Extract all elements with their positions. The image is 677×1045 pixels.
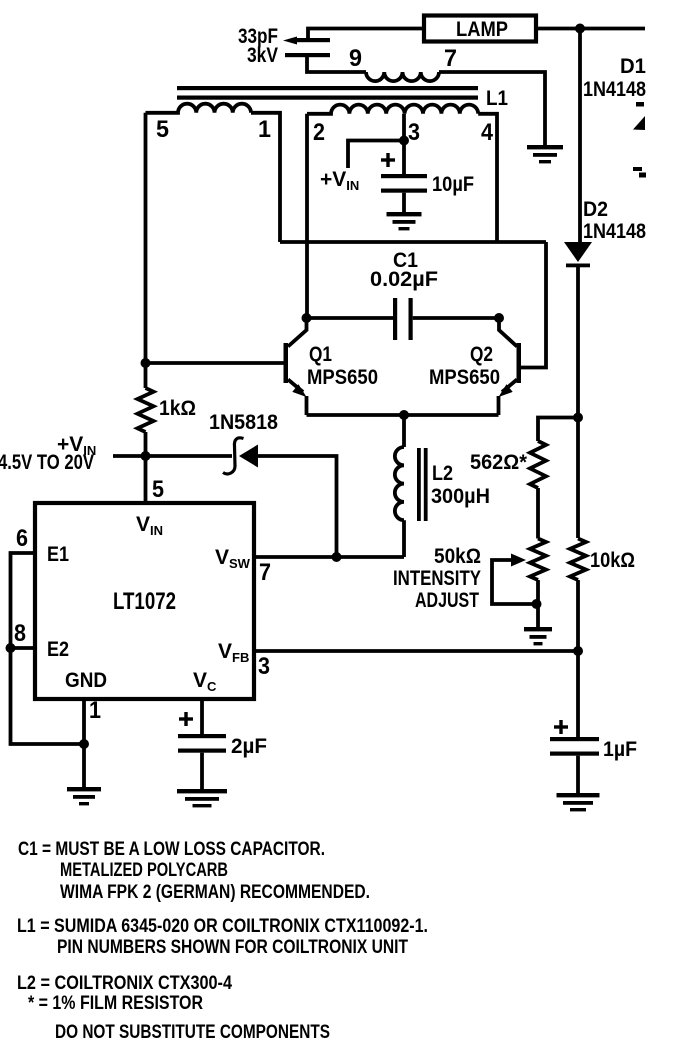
ground (10uF) [387, 212, 422, 216]
wire: lamp left lead to 33pF [308, 29, 424, 41]
node: +VIN junction [141, 451, 151, 461]
wire: 33pF bottom to winding pin 9 [307, 55, 366, 72]
svg-text:50kΩ: 50kΩ [434, 545, 481, 568]
svg-text:4: 4 [481, 119, 494, 146]
node: VSW junction [332, 552, 342, 562]
node: GND junction [79, 739, 89, 749]
inductor L1 winding pins 2-3-4 [307, 105, 478, 114]
svg-text:1N4148: 1N4148 [583, 220, 646, 243]
wire: lamp right lead [536, 27, 645, 31]
svg-text:PIN NUMBERS SHOWN FOR COILTRON: PIN NUMBERS SHOWN FOR COILTRONIX UNIT [57, 937, 408, 958]
svg-text:C1 = MUST BE A LOW LOSS CAPACI: C1 = MUST BE A LOW LOSS CAPACITOR. [18, 839, 325, 860]
wire: center tap pin3 down [402, 114, 406, 141]
svg-text:562Ω*: 562Ω* [470, 451, 528, 474]
svg-text:3: 3 [408, 119, 420, 146]
ground (pin 7) [527, 145, 563, 149]
svg-text:L1 = SUMIDA 6345-020 OR COILTR: L1 = SUMIDA 6345-020 OR COILTRONIX CTX11… [17, 916, 428, 937]
potentiometer 50k intensity adjust [530, 539, 546, 581]
wire: +VIN feed [348, 141, 404, 169]
wire: rail down to Q2 base [521, 242, 546, 368]
ground (pot) [524, 627, 552, 631]
svg-text:LT1072: LT1072 [113, 588, 176, 615]
wire: VFB line [254, 649, 578, 653]
svg-text:1µF: 1µF [603, 738, 637, 761]
svg-text:L1: L1 [486, 87, 508, 110]
node: C1 left / Q1 collector [302, 313, 312, 323]
wire: to 562 resistor [538, 418, 578, 442]
wire: E1 E2 loop [11, 553, 85, 744]
svg-text:L2 = COILTRONIX CTX300-4: L2 = COILTRONIX CTX300-4 [17, 973, 232, 994]
ground (GND pin) [67, 787, 101, 791]
resistor 10k [570, 539, 586, 581]
inductor L2 300uH [402, 415, 406, 447]
wire: +VIN input [113, 454, 232, 458]
wire: emitter bus [307, 413, 499, 417]
svg-text:1N4148: 1N4148 [583, 78, 646, 101]
svg-text:10µF: 10µF [432, 173, 474, 196]
svg-text:7: 7 [444, 45, 457, 72]
capacitor 1uF [559, 720, 562, 734]
node: C1 right / Q2 collector [494, 313, 504, 323]
capacitor 2uF [184, 712, 187, 726]
node: D2 / 562 / 10k junction [573, 413, 583, 423]
capacitor 33pF 3kV [283, 37, 297, 45]
svg-text:3: 3 [258, 653, 270, 680]
wire: C1 left to Q1 collector node [307, 316, 394, 320]
transistor Q1 MPS650 [288, 318, 307, 347]
svg-text:7: 7 [259, 559, 271, 586]
svg-text:2µF: 2µF [231, 735, 267, 758]
ground (1uF) [557, 793, 600, 797]
svg-text:Q2: Q2 [470, 343, 493, 366]
svg-text:D2: D2 [583, 198, 608, 221]
svg-text:300µH: 300µH [431, 485, 490, 508]
svg-text:6: 6 [16, 525, 28, 552]
svg-text:MPS650: MPS650 [307, 366, 378, 389]
resistor 1k [138, 388, 154, 432]
svg-text:L2: L2 [432, 462, 453, 485]
ground (2uF) [177, 789, 227, 793]
svg-text:2: 2 [313, 119, 325, 146]
svg-text:ADJUST: ADJUST [415, 589, 479, 612]
lamp LAMP [424, 16, 536, 42]
svg-text:5: 5 [156, 116, 169, 143]
svg-text:WIMA FPK 2 (GERMAN) RECOMMENDE: WIMA FPK 2 (GERMAN) RECOMMENDED. [60, 882, 370, 903]
inductor L1 winding pins 5-1 [146, 104, 252, 113]
svg-text:E1: E1 [47, 543, 69, 566]
svg-text:3kV: 3kV [247, 44, 278, 67]
wire: VC pin down [200, 699, 204, 734]
wire: rail pin1-pin4 bottom [280, 240, 546, 244]
svg-text:9: 9 [349, 45, 362, 72]
wire: D1/D2 branch from lamp node down [578, 29, 582, 243]
node: E2 junction [6, 643, 16, 653]
svg-text:D1: D1 [620, 55, 646, 78]
wire: Q1 base to 1k node [146, 361, 284, 365]
wire: pin2 line down through rail to C1 left node [305, 114, 309, 318]
svg-text:1N5818: 1N5818 [209, 411, 278, 434]
svg-text:5: 5 [152, 476, 164, 503]
svg-text:E2: E2 [47, 638, 69, 661]
node: pot wiper junction [532, 599, 542, 609]
svg-text:MPS650: MPS650 [429, 366, 500, 389]
resistor 562 ohm 1% [530, 441, 546, 488]
svg-text:0.02µF: 0.02µF [370, 268, 438, 291]
wire: VSW to L2 bottom [254, 555, 404, 559]
inductor L1 primary winding pins 9-7 [366, 72, 439, 81]
svg-text:METALIZED POLYCARB: METALIZED POLYCARB [60, 860, 228, 881]
node: emitter bus / L2 top [399, 410, 409, 420]
svg-text:1: 1 [89, 697, 101, 724]
wire: winding pin5 down [144, 113, 148, 388]
svg-text:Q1: Q1 [309, 343, 332, 366]
capacitor 10uF [386, 153, 389, 167]
wire: C1 right to Q2 collector node [413, 316, 499, 320]
svg-text:DO NOT SUBSTITUTE COMPONENTS: DO NOT SUBSTITUTE COMPONENTS [55, 1022, 330, 1043]
node: pin3 / +VIN / 10uF junction [399, 136, 409, 146]
svg-text:* = 1% FILM RESISTOR: * = 1% FILM RESISTOR [28, 993, 203, 1014]
transistor Q2 MPS650 [499, 318, 517, 347]
svg-text:1kΩ: 1kΩ [159, 397, 196, 420]
svg-text:10kΩ: 10kΩ [590, 549, 635, 572]
svg-text:+VIN: +VIN [320, 168, 359, 193]
svg-text:1: 1 [258, 116, 271, 143]
svg-text:LAMP: LAMP [456, 18, 508, 41]
svg-text:INTENSITY: INTENSITY [393, 567, 481, 590]
transformer L1 core [177, 86, 478, 90]
wire: 1N5818 cathode right then down to VSW [258, 456, 337, 557]
wire: D2 cathode down [576, 267, 580, 538]
wire: GND pin down [82, 699, 86, 787]
op-amp U1 LT1072 [35, 503, 254, 699]
svg-text:4.5V TO 20V: 4.5V TO 20V [0, 451, 94, 474]
node: Q1 base junction [141, 358, 151, 368]
wire: pin1 down to rail [251, 113, 280, 242]
svg-text:8: 8 [14, 620, 26, 647]
node: VFB / 10k / 1uF junction [573, 646, 583, 656]
svg-text:GND: GND [65, 669, 107, 692]
node: lamp output junction [575, 24, 585, 34]
wire: winding pin 7 to ground [439, 72, 545, 145]
